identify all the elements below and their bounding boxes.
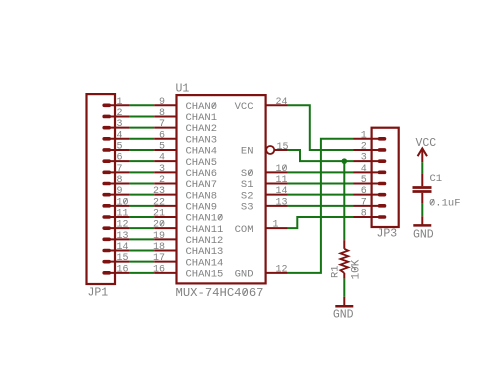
wire net COM: U1.1 to JP3.8 <box>288 217 354 228</box>
svg-text:2: 2 <box>361 141 367 152</box>
JP3 pin 1 <box>354 130 385 141</box>
wire C1 to GND <box>421 204 423 217</box>
svg-text:MUX-74HC4067: MUX-74HC4067 <box>176 287 264 300</box>
svg-text:12: 12 <box>276 264 288 275</box>
U1 pin 6 (CHAN3) <box>154 130 176 141</box>
svg-text:8: 8 <box>159 108 165 119</box>
svg-text:12: 12 <box>117 220 129 231</box>
JP1 pin 5 <box>104 141 129 152</box>
svg-text:17: 17 <box>153 253 165 264</box>
svg-text:6: 6 <box>159 130 165 141</box>
wire net VCC: U1.24 to JP3.2 <box>288 105 354 150</box>
wire net JP1.11 to U1.21 <box>129 216 154 218</box>
svg-text:3: 3 <box>159 164 165 175</box>
JP1 pin 8 <box>104 175 129 186</box>
wire net S2: U1.14 to JP3.6 <box>288 194 354 196</box>
svg-text:VCC: VCC <box>235 101 254 113</box>
svg-text:2: 2 <box>117 108 123 119</box>
U1 pin 21 (CHAN10) <box>153 209 177 220</box>
VCC supply symbol <box>415 137 436 162</box>
U1 pin 4 (CHAN5) <box>154 153 176 164</box>
U1 pin 17 (CHAN14) <box>153 253 177 264</box>
svg-text:23: 23 <box>153 186 165 197</box>
JP1 pin 13 <box>104 231 129 242</box>
svg-text:22: 22 <box>153 197 165 208</box>
wire EN net down to R1 <box>343 161 345 240</box>
svg-text:10K: 10K <box>351 259 363 279</box>
JP1 pin 2 <box>104 108 129 119</box>
wire net JP1.15 to U1.17 <box>129 261 154 263</box>
svg-text:JP1: JP1 <box>88 287 109 300</box>
U1 control pin names VCC EN S0-S3 COM GND <box>235 101 254 281</box>
U1 pin 2 (CHAN7) <box>154 175 176 186</box>
wire VCC to C1 <box>421 162 423 173</box>
U1 pin 13 (S3) <box>266 197 288 208</box>
JP1 pin 14 <box>104 242 129 253</box>
svg-text:1: 1 <box>273 220 279 231</box>
U1 pin 16 (CHAN15) <box>153 264 177 275</box>
U1 pin 9 (CHAN0) <box>154 97 176 108</box>
svg-text:4: 4 <box>159 153 165 164</box>
wire net EN: U1.15 to JP3.3 and R1 <box>288 150 354 161</box>
JP3 pin 5 <box>354 175 385 186</box>
wire net JP1.4 to U1.6 <box>129 138 154 140</box>
svg-text:7: 7 <box>361 197 367 208</box>
junction EN net / R1 <box>342 158 348 164</box>
JP1 pin 11 <box>104 209 129 220</box>
JP1 pin 10 <box>104 197 129 208</box>
U1 pin 14 (S2) <box>266 186 288 197</box>
U1 pin 5 (CHAN4) <box>154 141 176 152</box>
U1 pin 1 (COM) <box>266 220 288 231</box>
IC U1 MUX-74HC4067 body <box>177 95 266 283</box>
svg-text:VCC: VCC <box>415 137 436 150</box>
wire net JP1.12 to U1.20 <box>129 227 154 229</box>
svg-text:7: 7 <box>159 119 165 130</box>
JP1 pin 4 <box>104 130 129 141</box>
svg-text:3: 3 <box>361 153 367 164</box>
svg-text:COM: COM <box>235 224 254 236</box>
wire net JP1.1 to U1.9 <box>129 104 154 106</box>
JP3 pin 4 <box>354 164 385 175</box>
svg-text:5: 5 <box>361 175 367 186</box>
ground symbol below R1 <box>333 297 354 322</box>
svg-text:5: 5 <box>117 141 123 152</box>
svg-text:13: 13 <box>276 197 288 208</box>
svg-text:14: 14 <box>117 242 129 253</box>
U1 pin 11 (S1) <box>266 175 288 186</box>
svg-text:15: 15 <box>117 253 129 264</box>
U1 pin 8 (CHAN1) <box>154 108 176 119</box>
wire net GND: U1.12 to JP3.1 <box>288 139 354 273</box>
JP1 pin 6 <box>104 153 129 164</box>
svg-text:21: 21 <box>153 209 165 220</box>
svg-text:2: 2 <box>159 175 165 186</box>
svg-text:9: 9 <box>159 97 165 108</box>
svg-text:EN: EN <box>241 146 254 158</box>
wire net S1: U1.11 to JP3.5 <box>288 182 354 184</box>
U1 pin 19 (CHAN12) <box>153 231 177 242</box>
svg-text:13: 13 <box>117 231 129 242</box>
wire net JP1.9 to U1.23 <box>129 194 154 196</box>
svg-text:14: 14 <box>276 186 288 197</box>
svg-text:15: 15 <box>277 142 289 153</box>
U1 pin 23 (CHAN8) <box>153 186 177 197</box>
svg-text:1: 1 <box>117 97 123 108</box>
JP1 pin 3 <box>104 119 129 130</box>
svg-text:1: 1 <box>361 130 367 141</box>
svg-text:16: 16 <box>153 264 165 275</box>
svg-text:11: 11 <box>117 209 129 220</box>
U1 pin 7 (CHAN2) <box>154 119 176 130</box>
JP3 pin 2 <box>354 141 385 152</box>
wire R1 to GND <box>343 279 345 297</box>
wire net JP1.6 to U1.4 <box>129 160 154 162</box>
wire net JP1.7 to U1.3 <box>129 171 154 173</box>
svg-text:4: 4 <box>361 164 367 175</box>
JP1 pin 1 <box>104 97 129 108</box>
svg-text:U1: U1 <box>176 83 190 96</box>
JP1 pin 7 <box>104 164 129 175</box>
JP3 pin 6 <box>354 186 385 197</box>
svg-text:4: 4 <box>117 130 123 141</box>
U1 pin 20 (CHAN11) <box>153 220 177 231</box>
wire net JP1.3 to U1.7 <box>129 127 154 129</box>
capacitor C1 <box>413 174 432 204</box>
ground symbol below C1 <box>413 216 434 241</box>
U1 pin 10 (S0) <box>266 164 288 175</box>
svg-text:8: 8 <box>117 175 123 186</box>
svg-text:6: 6 <box>117 153 123 164</box>
JP3 pin 8 <box>354 209 385 220</box>
wire net S0: U1.10 to JP3.4 <box>288 171 354 173</box>
svg-text:19: 19 <box>153 231 165 242</box>
svg-text:6: 6 <box>361 186 367 197</box>
svg-text:GND: GND <box>333 309 354 322</box>
svg-text:18: 18 <box>153 242 165 253</box>
svg-text:JP3: JP3 <box>377 228 398 241</box>
wire net JP1.2 to U1.8 <box>129 115 154 117</box>
svg-text:GND: GND <box>235 268 254 280</box>
wire net JP1.5 to U1.5 <box>129 149 154 151</box>
svg-text:R1: R1 <box>330 265 342 278</box>
connector JP3 body <box>372 128 399 227</box>
svg-text:7: 7 <box>117 164 123 175</box>
svg-text:5: 5 <box>159 141 165 152</box>
svg-text:9: 9 <box>117 186 123 197</box>
svg-text:8: 8 <box>361 209 367 220</box>
U1 pin 3 (CHAN6) <box>154 164 176 175</box>
svg-text:16: 16 <box>117 264 129 275</box>
svg-text:CHAN15: CHAN15 <box>186 268 224 280</box>
wire net JP1.14 to U1.18 <box>129 250 154 252</box>
U1 pin 22 (CHAN9) <box>153 197 177 208</box>
wire net JP1.16 to U1.16 <box>129 272 154 274</box>
JP1 pin 15 <box>104 253 129 264</box>
svg-text:3: 3 <box>117 119 123 130</box>
JP3 pin 3 <box>354 153 385 164</box>
wire net JP1.8 to U1.2 <box>129 182 154 184</box>
wire net JP1.10 to U1.22 <box>129 205 154 207</box>
U1 pin 15 (EN) <box>266 142 288 154</box>
svg-text:11: 11 <box>276 175 288 186</box>
resistor R1 <box>340 240 348 278</box>
JP1 pin 12 <box>104 220 129 231</box>
JP1 pin 9 <box>104 186 129 197</box>
JP3 pin 7 <box>354 197 385 208</box>
wire net JP1.13 to U1.19 <box>129 238 154 240</box>
JP1 pin 16 <box>104 264 129 275</box>
svg-text:S3: S3 <box>241 201 254 213</box>
svg-text:GND: GND <box>413 229 434 242</box>
U1 channel pin names CHAN0-CHAN15 <box>186 101 224 281</box>
svg-text:24: 24 <box>276 97 288 108</box>
U1 pin 24 (VCC) <box>266 97 288 108</box>
connector JP1 body <box>87 94 116 284</box>
svg-text:C1: C1 <box>430 173 443 185</box>
U1 pin 18 (CHAN13) <box>153 242 177 253</box>
U1 pin 12 (GND) <box>266 264 288 275</box>
wire net S3: U1.13 to JP3.7 <box>288 205 354 207</box>
